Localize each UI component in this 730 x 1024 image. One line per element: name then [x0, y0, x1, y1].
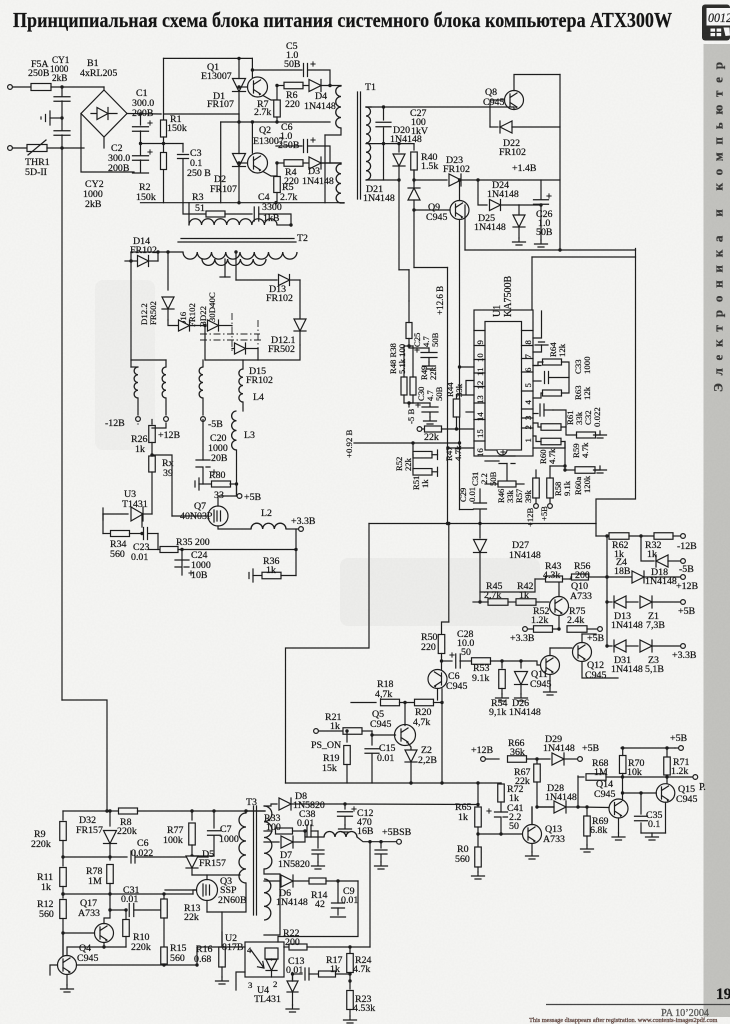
wire bridge bottom — [103, 137, 105, 148]
capacitor C3 — [182, 144, 184, 153]
resistor R65 — [477, 783, 479, 807]
wire pin14 — [466, 411, 474, 413]
wire Q1 base — [239, 86, 248, 88]
wire R14 loop to U2 pin1 — [326, 880, 358, 882]
wire U4 ref — [292, 974, 294, 981]
T1 secondary winding lower — [366, 143, 371, 180]
transistor Q5 — [395, 725, 416, 746]
diode D21 — [398, 180, 400, 270]
wire row 834 — [478, 833, 522, 835]
transistor Q4 — [58, 956, 77, 975]
wire Q14 emitter gnd — [618, 818, 620, 833]
terminal -5B — [681, 559, 686, 564]
wire box around standby — [464, 205, 466, 250]
capacitor C29 — [479, 489, 481, 503]
terminal +3.3B — [286, 528, 298, 530]
wire pin7 gnd — [533, 345, 542, 352]
resistor R7 — [276, 86, 278, 101]
wire C1 node to driver column — [164, 113, 240, 115]
resistor R62 — [609, 533, 629, 540]
terminal +3.3B mid — [523, 627, 528, 632]
resistor R70 — [619, 756, 626, 774]
diode D32 — [109, 811, 111, 826]
terminal -12B — [136, 417, 141, 422]
transistor Q14 — [609, 799, 628, 818]
resistor R21 — [343, 728, 362, 735]
diode D27 — [479, 524, 481, 539]
wire R35 row — [157, 534, 159, 550]
resistor R26 — [151, 423, 153, 425]
bottom rail — [141, 202, 345, 204]
wire +3.3 down — [295, 529, 297, 576]
resistor R11 — [62, 857, 64, 866]
capacitor C23 — [144, 528, 148, 540]
scan ghost shading — [95, 280, 540, 626]
resistor R5 — [263, 172, 277, 177]
wire mid rail Q2 — [221, 121, 330, 123]
wire pin11 long — [460, 366, 475, 368]
wire Q11 collector to Q12 — [550, 647, 572, 649]
wire left bus corner — [62, 700, 107, 811]
capacitor C31 — [485, 460, 499, 462]
diode D18 — [656, 555, 668, 567]
resistor R12 — [62, 894, 64, 898]
T2 center tap — [224, 259, 226, 277]
terminal +5B mid — [598, 627, 603, 632]
resistor R66 — [486, 758, 500, 760]
terminal +5BSB — [397, 839, 402, 844]
resistor R40 — [413, 144, 415, 150]
wire Q5 base row — [372, 731, 396, 735]
terminal +5B top right — [675, 747, 678, 749]
resistor R60a — [575, 467, 595, 474]
capacitor C5 — [251, 68, 254, 71]
resistor R72 — [500, 782, 502, 784]
diode D28 — [554, 801, 566, 813]
resistor R19 — [345, 729, 348, 732]
resistor R69 — [584, 816, 591, 836]
wire Q2 collector — [251, 122, 253, 153]
scan noise overlay — [0, 0, 1, 1]
optocoupler U2 817B — [245, 942, 284, 977]
zener Z3 — [640, 640, 652, 652]
resistor R64 — [533, 365, 541, 367]
resistor R51 — [412, 455, 414, 472]
T2 primary winding — [188, 203, 190, 225]
wire row 857 — [63, 856, 110, 858]
T2 secondary winding row1 — [183, 252, 297, 259]
capacitor C24 — [180, 548, 183, 551]
capacitor C7 — [213, 811, 215, 828]
wire Q10 emitter — [558, 616, 560, 630]
transistor Q15 — [656, 784, 675, 803]
terminal -5B — [201, 417, 206, 422]
resistor R56 — [572, 574, 589, 580]
inductor L4 — [239, 369, 243, 402]
capacitor pin3 C32 — [533, 413, 538, 415]
wire IC top feed — [532, 256, 636, 258]
wire +5B row — [606, 536, 608, 602]
capacitor C30 — [408, 403, 410, 407]
wire D8 line to R65 — [345, 803, 478, 806]
wire pin12 — [466, 381, 474, 395]
top-right counter icon — [702, 5, 730, 41]
capacitor C41 — [495, 812, 508, 817]
wire U2 pin4 — [197, 946, 245, 948]
capacitor C38 — [307, 825, 311, 837]
resistor R17 — [319, 971, 336, 977]
input terminal top — [8, 85, 13, 90]
terminal +12B low — [481, 757, 486, 762]
resistor R52b — [528, 628, 533, 630]
diode D24 — [478, 180, 487, 205]
wire R43 R56 row — [479, 601, 481, 603]
diode D13 out — [614, 596, 626, 608]
transistor Q2 — [248, 153, 268, 173]
transistor Q1 — [248, 77, 268, 97]
wire Q14 collector — [622, 777, 624, 793]
resistor R20 — [415, 699, 434, 706]
resistor R23 — [349, 981, 351, 989]
capacitor C27 — [382, 105, 385, 108]
IC pin dividers right — [522, 331, 534, 429]
resistor R58 — [547, 478, 554, 498]
diode D31 — [614, 640, 626, 652]
T1 primary center tap — [325, 128, 341, 135]
diode lower small — [235, 343, 246, 354]
resistor R53 — [472, 658, 491, 665]
capacitor C1 — [140, 114, 142, 125]
resistor R0 — [477, 834, 479, 847]
dash-dot box — [200, 334, 262, 340]
choke winding +12V — [162, 367, 166, 398]
left long bus wire — [61, 148, 63, 700]
resistor R1 — [163, 114, 165, 119]
right vertical wire — [559, 75, 561, 251]
resistor R32 — [654, 533, 673, 540]
resistor R45 — [473, 601, 478, 603]
wire top rail to Q stage — [160, 113, 162, 115]
resistor R42 — [516, 599, 536, 606]
T1 center tap wire — [366, 143, 414, 145]
resistor R80 — [195, 478, 199, 490]
capacitor C4 — [254, 207, 259, 221]
resistor R15 — [161, 947, 168, 964]
wire R26 junction — [150, 453, 153, 456]
wire Q8 collector — [514, 75, 560, 91]
IC U1 body — [485, 322, 522, 451]
gray sidebar — [704, 44, 730, 1017]
capacitor C9 — [337, 881, 339, 903]
wire D28 junction up — [577, 776, 579, 807]
resistor R77 — [191, 811, 193, 820]
wire gate row — [192, 855, 214, 857]
T1 core — [358, 92, 361, 199]
resistor R34 — [102, 514, 104, 534]
capacitor pin5 C33 — [533, 380, 541, 382]
wire right box — [596, 249, 636, 524]
wire Q1 collector — [251, 58, 253, 77]
resistor R35 — [160, 547, 178, 553]
transistor Q13 — [523, 825, 542, 844]
wire upper rail — [164, 57, 253, 59]
wire R22 left — [283, 946, 285, 948]
resistor R4 — [276, 162, 284, 164]
resistor R63 — [543, 390, 562, 396]
wire bottom bus — [369, 523, 596, 525]
transistor Q6 — [428, 670, 447, 689]
resistor R50 — [448, 524, 450, 623]
wire Q4 base row — [77, 964, 198, 966]
resistor R13 — [163, 894, 165, 899]
T1 primary winding lower — [340, 163, 342, 165]
diode D7 — [264, 841, 279, 843]
capacitor C6 — [276, 145, 302, 147]
capacitor C25 — [409, 347, 429, 349]
T2 secondary winding row2 — [202, 259, 266, 265]
diode D23 — [414, 179, 447, 181]
diode D29 — [552, 753, 564, 765]
transistor Q10 — [550, 597, 569, 616]
terminal -12B — [681, 534, 686, 539]
terminal +12B — [164, 417, 169, 422]
resistor R22 — [284, 946, 289, 948]
fuse F5A — [31, 84, 51, 91]
zener Z4 — [607, 576, 631, 578]
terminal +5B out — [681, 600, 686, 605]
terminal +5B — [236, 450, 238, 496]
T3 secondary winding upper — [264, 806, 272, 869]
resistor R61 — [541, 424, 561, 431]
ground stub CY — [50, 117, 62, 119]
resistor R14 — [309, 878, 326, 884]
wire bridge left loop — [81, 114, 134, 173]
resistors R48 R38 pair — [401, 377, 407, 395]
resistor R71 — [665, 746, 668, 749]
capacitor C12 — [343, 802, 346, 805]
terminal PS_ON — [314, 729, 319, 734]
transistor Q9 — [450, 201, 469, 220]
capacitor C28 — [440, 659, 443, 662]
capacitor C13 — [293, 973, 303, 975]
transistor Q7 40N03P — [208, 506, 228, 526]
resistor R38 — [406, 323, 412, 339]
wire Q14 base — [578, 806, 609, 809]
resistor R78 — [109, 857, 111, 860]
terminal +5B low — [578, 757, 583, 762]
thermistor THR1 — [27, 145, 47, 152]
capacitor filter 2 — [379, 840, 382, 843]
wire Q15 base row — [623, 792, 657, 794]
bridge rectifier B1 — [81, 90, 127, 137]
T3 primary winding — [239, 813, 246, 883]
diode D1 — [233, 79, 246, 92]
resistor R52 — [412, 443, 414, 455]
T3 core — [254, 806, 257, 915]
transistor Q8 — [505, 91, 524, 110]
resistor R36 — [249, 569, 253, 582]
wire pin13 R44 — [457, 394, 475, 396]
diode D26 — [519, 659, 522, 662]
wire bottom box — [286, 782, 479, 784]
resistor R54 — [500, 659, 503, 662]
wire out bus right — [595, 524, 597, 537]
wire Q6 emitter down — [441, 689, 443, 783]
wire Q5 collector — [404, 703, 406, 726]
diode D2 — [233, 154, 246, 167]
wire pin16 down — [447, 447, 449, 449]
wire Q1 emitter — [263, 96, 277, 101]
resistor 22k feedback — [422, 428, 424, 430]
terminal +3.3B out — [681, 644, 686, 649]
capacitor C2 — [140, 144, 142, 156]
left winding drops — [131, 251, 183, 253]
wire U2 pin3 — [236, 972, 245, 990]
capacitor C35 — [640, 793, 642, 814]
wire R43 left — [480, 579, 535, 592]
inductor L2 — [251, 523, 286, 529]
terminal +12B — [681, 575, 686, 580]
resistor R43 — [535, 578, 545, 580]
capacitor filter 1 — [317, 831, 319, 848]
wire PG row — [606, 776, 693, 778]
capacitor C31 low — [109, 894, 111, 910]
resistor R8 — [119, 808, 138, 814]
T3 secondary winding lower — [264, 879, 271, 920]
wire top rail to right box — [465, 249, 636, 251]
terminal PG out — [693, 775, 698, 780]
wire +5B top rail — [621, 747, 675, 749]
choke +5VSB — [305, 831, 324, 837]
diode D25 — [513, 215, 525, 227]
node join secondary — [205, 349, 258, 361]
T1 primary winding upper — [340, 85, 342, 87]
choke winding -5V — [199, 367, 203, 398]
wire Q10 collector — [558, 579, 560, 597]
diode D22 — [490, 126, 498, 128]
wire Q2 base — [239, 162, 248, 164]
capacitor CY1 — [61, 87, 63, 96]
wire pin8 path — [533, 311, 542, 338]
T1 bottom wire — [366, 179, 399, 181]
inductor L3 — [232, 411, 237, 450]
resistor R44 — [453, 399, 460, 417]
capacitor C15 — [371, 735, 373, 745]
resistor R2 — [163, 144, 165, 153]
wire R62 row — [596, 535, 609, 537]
resistor R75 — [567, 626, 587, 633]
wire T3 secondary gnd — [264, 869, 280, 935]
resistor R10 — [125, 910, 127, 919]
resistor R24 — [349, 947, 351, 953]
transistor Q17 — [95, 924, 114, 943]
input terminal bottom — [8, 146, 13, 151]
wire Q6 base collector — [441, 657, 443, 670]
wire R58 top — [550, 465, 565, 467]
diode D3 — [309, 157, 321, 169]
wire Q8 emitter — [509, 106, 514, 108]
resistor R9 — [63, 810, 107, 812]
resistor R6 — [277, 85, 284, 87]
wire R24 to +5VSB rail — [369, 842, 371, 947]
wire bridge to C1 — [127, 113, 161, 116]
resistor R67 — [536, 759, 538, 763]
resistor R18 — [351, 702, 376, 704]
diode D20 — [398, 144, 400, 152]
resistor R68 — [578, 776, 584, 778]
resistor R16 — [219, 947, 226, 967]
resistor R33 — [264, 830, 272, 832]
wire T1 top to Q8 — [366, 106, 371, 108]
wire Q9 — [459, 180, 461, 201]
diode D8 — [264, 804, 277, 806]
capacitor C26 — [519, 204, 541, 206]
IC U1 outer frame — [474, 310, 533, 456]
wire left box down — [286, 524, 370, 784]
wire Q15 emitter — [665, 802, 667, 833]
resistor R3 — [183, 203, 206, 214]
T1 secondary winding upper — [366, 107, 371, 143]
diode D5 — [186, 856, 198, 868]
footer rule — [546, 1004, 730, 1006]
wire primary top rail — [107, 810, 118, 812]
wire pin16 — [448, 447, 474, 449]
zener Z2 — [408, 743, 411, 750]
wire gate row long — [63, 893, 193, 895]
diode D4 — [309, 80, 321, 92]
capacitor CY2 — [61, 118, 63, 130]
choke winding -12V — [134, 367, 138, 398]
capacitor C6 standby — [110, 856, 127, 858]
resistor R46 R57 — [498, 481, 516, 487]
zener Z1 — [640, 596, 652, 608]
resistor R60 — [541, 438, 561, 445]
wire +3.3 row — [607, 602, 612, 646]
transistor Q11 — [541, 656, 560, 675]
IC pin dividers left — [474, 331, 485, 442]
transistor Q3 SSP 2N60B — [197, 880, 218, 901]
T2 core lines — [178, 239, 296, 243]
wire Q8 base — [508, 106, 510, 108]
wire Z4 junction — [641, 536, 654, 561]
resistor Rx — [149, 456, 156, 472]
resistor to +12B — [533, 478, 540, 498]
wire to bridge top — [103, 87, 105, 90]
resistor R59 — [577, 432, 596, 438]
transistor Q12 — [573, 643, 592, 662]
diode D6 — [264, 880, 279, 882]
node mid rail — [139, 142, 142, 145]
